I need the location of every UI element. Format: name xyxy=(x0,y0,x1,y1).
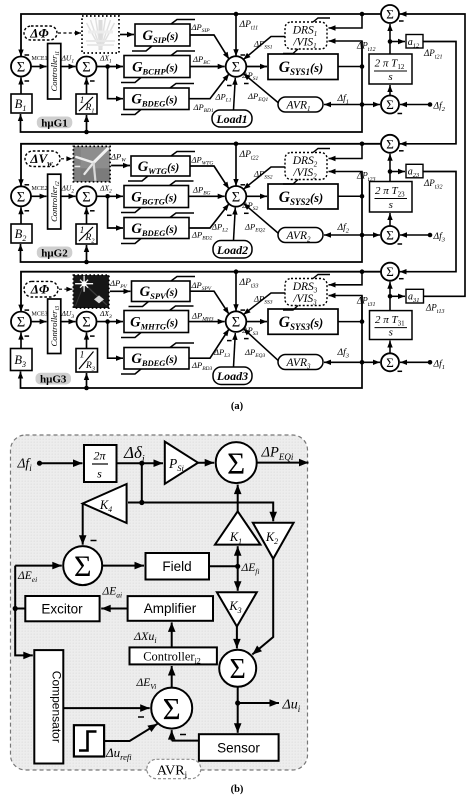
wire G_SPV output to main summer area 3 xyxy=(190,291,229,314)
wire junction to gain a31 xyxy=(390,294,405,299)
svg-text:s: s xyxy=(388,71,392,83)
wire dX3 down to third block area 3 xyxy=(108,322,123,361)
wire G_BDEG output to main summer area 1 xyxy=(189,74,229,99)
svg-text:MCE2: MCE2 xyxy=(32,186,48,192)
wire ACE to controller area 1 with MCE label xyxy=(31,64,47,69)
wire main summer output dP_S1 to G_SYS1 xyxy=(246,64,267,69)
wire AVR1 output dP_EQ1 into main summer xyxy=(243,74,278,103)
wire df2 into AVR2 xyxy=(324,232,362,237)
wire AVR2 output dP_EQ2 into main summer xyxy=(243,203,278,233)
svg-text:(a): (a) xyxy=(231,401,244,412)
wire Sensor output into summer b3 xyxy=(168,730,199,741)
svg-text:Amplifier: Amplifier xyxy=(144,601,197,616)
wire df1 into DRS1 input 2 xyxy=(329,38,363,66)
svg-text:ΔΦ: ΔΦ xyxy=(30,282,50,297)
block G_BDEG(s) area 2 xyxy=(121,213,194,244)
wire K2 output down into summer b2 xyxy=(252,559,273,655)
wire G_BGTG output to main summer area 2 xyxy=(189,194,225,199)
block B2 frequency bias area 2 xyxy=(11,224,32,243)
wire 1/R3 output into governor summer xyxy=(84,333,89,349)
gain K4 triangle pointing left xyxy=(83,484,127,523)
summing junction governor area 1 xyxy=(77,57,97,82)
node B3 frequency bias input ellipse &#916;&#934; xyxy=(24,281,58,297)
block G_SYS3(s) power system area 3 xyxy=(268,309,338,334)
svg-text:Load3: Load3 xyxy=(216,369,248,383)
component AVR1 automatic voltage regulator area 1 xyxy=(278,97,323,113)
summing junction b1 electrical power xyxy=(216,442,257,483)
wire tie summer up into 2piT12/s block xyxy=(387,85,392,96)
wire dashed disturbance arrow into image area 3 xyxy=(59,287,72,292)
label h-microgrid hmG1 badge xyxy=(37,117,73,130)
summing junction main power balance area 2 xyxy=(226,186,249,215)
wire main summer output dP_S3 to G_SYS3 xyxy=(246,319,267,324)
wire K3 output into summer b2 xyxy=(233,627,241,649)
svg-text:2π: 2π xyxy=(93,449,106,463)
wire DRS3 output dP_SS3 to main summer xyxy=(243,293,285,315)
wire dX1 down to third block area 1 xyxy=(108,67,123,102)
label h-microgrid hmG3 badge xyxy=(36,373,72,386)
wire ddelta_i down to K4 and K2 branch xyxy=(128,463,144,505)
wire 1/R2 output into governor summer xyxy=(84,207,89,224)
svg-text:Σ: Σ xyxy=(230,654,246,685)
summing junction tie-line area 1 xyxy=(381,96,402,114)
wire df other area stub into tie summer area 3 xyxy=(400,360,432,365)
wire df3 into DRS3 input 2 xyxy=(329,293,363,322)
image renewable-source photo area 3 with dotted border xyxy=(73,275,109,308)
wire df3 feedback down and across bottom area 3 xyxy=(18,296,365,391)
wire dE_ei into left summer xyxy=(15,562,62,570)
component AVR3 automatic voltage regulator area 3 xyxy=(278,355,323,371)
svg-text:1: 1 xyxy=(80,226,85,236)
svg-text:Controlleri2: Controlleri2 xyxy=(143,650,201,666)
gain P_Si triangle xyxy=(165,442,198,484)
wire area3 tie feedback top line from top summer to ACE summer xyxy=(18,269,381,311)
wire G_SYS2 output df2 to node xyxy=(338,194,364,199)
svg-text:Σ: Σ xyxy=(232,315,240,331)
block B1 frequency bias area 1 xyxy=(11,94,32,113)
summing junction top tie area 1 xyxy=(381,5,404,23)
wire rotor angle ddelta_i to P_Si gain xyxy=(117,459,164,467)
wire df self into tie summer area 1 xyxy=(362,102,380,107)
wire bottom feedback up into 1/R2 xyxy=(84,245,89,262)
node B2 frequency bias input ellipse &#916;V xyxy=(25,151,60,168)
block G_BGTG(s) area 2 xyxy=(121,181,194,213)
wire bottom feedback up into 1/R1 xyxy=(84,115,89,132)
wire dP_tie into main summer area 2 xyxy=(233,144,245,186)
svg-text:Sensor: Sensor xyxy=(217,741,260,756)
wire Controller output dXu_i to Amplifier xyxy=(168,622,176,647)
gain K1 triangle pointing up xyxy=(215,511,260,546)
wire df other area stub into tie summer area 2 xyxy=(400,232,432,237)
block G_WTG(s) area 2 xyxy=(128,152,195,182)
block gain a12 area 1 xyxy=(406,35,423,50)
wire G_SYS1 output df1 to node xyxy=(338,64,364,69)
summing junction b-left field error xyxy=(63,546,102,585)
svg-text:Excitor: Excitor xyxy=(41,602,83,617)
wire G_BDEG output to main summer area 2 xyxy=(189,204,229,228)
wire summer b3 output dE_Vi to Controller_i2 xyxy=(168,666,176,688)
component AVR2 automatic voltage regulator area 2 xyxy=(278,228,323,244)
wire junction to gain a12 xyxy=(390,39,405,44)
wire B2 output into ACE summer xyxy=(18,207,23,224)
svg-text:Σ: Σ xyxy=(386,228,394,243)
wire G_WTG output to main summer area 2 xyxy=(190,166,229,189)
summing junction ACE area 1 xyxy=(11,55,31,81)
block G_BDEG(s) area 1 xyxy=(121,84,194,115)
svg-text:Σ: Σ xyxy=(82,315,90,331)
wire AVR3 output dP_EQ3 into main summer xyxy=(243,329,278,361)
summing junction top tie area 3 xyxy=(381,263,404,281)
wire B3 output into ACE summer xyxy=(18,333,23,349)
block 2pi/s integrator xyxy=(84,445,117,482)
summing junction governor area 3 xyxy=(77,312,97,337)
wire bottom feedback up into 1/R3 xyxy=(84,373,89,388)
wire df1 feedback down and across bottom area 1 xyxy=(18,41,365,134)
node df_i input xyxy=(17,456,43,473)
block Compensator vertical xyxy=(34,650,63,763)
svg-text:Σ: Σ xyxy=(386,136,394,151)
block B3 frequency bias area 3 xyxy=(11,349,33,371)
svg-text:Σ: Σ xyxy=(82,60,90,76)
gain K2 triangle pointing down xyxy=(253,523,294,559)
wire df self into tie summer area 3 xyxy=(362,360,380,365)
summing junction tie-line area 3 xyxy=(381,353,402,371)
wire junction to gain a23 xyxy=(390,169,405,174)
block Controller_i3 secondary controller area 3 xyxy=(48,299,62,354)
wire a23 output dP_t32 down to area3 top summer xyxy=(400,172,457,275)
wire dX2 output with junction node area 2 xyxy=(97,194,124,199)
block G_MHTG(s) area 3 xyxy=(121,306,194,338)
image renewable-source photo area 2 with dotted border xyxy=(73,146,110,182)
summing junction main power balance area 3 xyxy=(226,311,249,340)
svg-text:Load1: Load1 xyxy=(215,112,247,126)
label h-microgrid hmG2 badge xyxy=(37,247,73,260)
wire a31 output dP_t13 up to area1 top summer xyxy=(400,11,466,296)
block 2piT12/s tie-line transfer area 1 xyxy=(369,54,412,84)
gain K3 triangle pointing down xyxy=(217,592,257,626)
svg-text:s: s xyxy=(389,199,393,211)
wire df self into tie summer area 2 xyxy=(362,232,380,237)
wire area1 tie feedback top line from top summer to ACE summer xyxy=(18,12,381,57)
wire tie-line signal into DRS3 input 1 xyxy=(329,272,363,288)
wire image output to first block area 3 xyxy=(110,289,131,294)
wire dX3 output with junction node area 3 xyxy=(97,319,124,324)
svg-text:Field: Field xyxy=(162,559,191,574)
summing junction ACE area 2 xyxy=(11,185,31,211)
wire B1 output into ACE summer xyxy=(18,78,23,95)
block DRS3/VIS3 demand response dashed box area 3 xyxy=(283,275,330,311)
wire dP_tie into main summer area 1 xyxy=(233,14,245,56)
svg-text:Σ: Σ xyxy=(17,189,25,205)
block G_BCHP(s) area 1 xyxy=(121,51,195,83)
wire a12 output dP_t21 down to area2 top summer xyxy=(400,42,457,147)
svg-text:/VIS1: /VIS1 xyxy=(292,37,316,51)
wire 2piT output up to junction and top summer area 1 xyxy=(387,24,392,54)
block Sensor xyxy=(199,734,279,761)
svg-text:AVR1: AVR1 xyxy=(285,100,310,114)
wire ACE to controller area 3 with MCE label xyxy=(31,319,47,324)
wire dashed disturbance arrow into image area 1 xyxy=(58,31,81,36)
svg-text:Σ: Σ xyxy=(82,189,90,205)
wire G_MHTG output to main summer area 3 xyxy=(189,319,225,324)
summing junction tie-line area 2 xyxy=(381,226,402,244)
wire Field output dE_fi junction to K1 and K3 xyxy=(209,546,242,591)
svg-text:Σ: Σ xyxy=(163,691,181,726)
wire G_SYS3 output df3 to node xyxy=(338,319,364,324)
svg-text:AVRi: AVRi xyxy=(157,764,188,780)
wire G_BDEG output to main summer area 3 xyxy=(189,329,229,358)
wire branch to K2 input xyxy=(142,503,277,522)
svg-text:Σ: Σ xyxy=(17,60,25,76)
wire Compensator output into summer b3 xyxy=(63,704,149,717)
block gain a31 area 3 xyxy=(406,289,424,304)
wire Load1 dP_L1 into main summer xyxy=(232,78,237,110)
wire tie summer up into 2piT23/s block xyxy=(387,213,392,226)
wire controller output dU1 to second summer area 1 xyxy=(61,64,76,69)
wire dX1 output with junction node area 1 xyxy=(97,64,124,69)
svg-text:Σ: Σ xyxy=(386,7,394,22)
summing junction governor area 2 xyxy=(77,186,97,211)
wire ACE to controller area 2 with MCE label xyxy=(31,194,47,199)
svg-text:Σ: Σ xyxy=(74,550,91,583)
svg-text:Σ: Σ xyxy=(232,189,240,205)
block 1/R3 droop area 3 xyxy=(76,349,98,373)
wire K4 output down into left summer xyxy=(79,504,97,545)
block Field xyxy=(146,553,210,580)
block 2piT23/s tie-line transfer area 2 xyxy=(370,182,413,213)
wire Load3 dP_L3 into main summer xyxy=(232,333,237,367)
block G_SYS2(s) power system area 2 xyxy=(268,184,338,209)
summing junction top tie area 2 xyxy=(381,135,404,153)
wire df other area stub into tie summer area 1 xyxy=(400,102,432,107)
svg-text:ΔXui: ΔXui xyxy=(133,629,157,645)
svg-text:MCE1: MCE1 xyxy=(32,56,48,62)
summing junction b2 voltage sum xyxy=(219,650,256,687)
wire DRS1 output dP_SS1 to main summer xyxy=(243,37,285,60)
panel AVR detail rounded dashed container with dotted fill xyxy=(11,435,308,770)
wire dashed disturbance arrow into image area 2 xyxy=(61,156,72,161)
wire df2 feedback down and across bottom area 2 xyxy=(18,172,365,265)
svg-text:hμG2: hμG2 xyxy=(41,247,68,259)
block G_BDEG(s) area 3 xyxy=(121,343,194,374)
svg-text:(b): (b) xyxy=(231,784,244,795)
wire G_SIP output to main summer area 1 xyxy=(190,35,229,59)
wire controller output dU3 to second summer area 3 xyxy=(61,319,76,324)
svg-text:1: 1 xyxy=(80,351,85,361)
wire image output to first block area 2 xyxy=(111,163,130,168)
wire G_BCHP output to main summer area 1 xyxy=(190,64,225,69)
svg-text:Σ: Σ xyxy=(227,445,245,480)
svg-text:Σ: Σ xyxy=(17,315,25,331)
wire DRS2 output dP_SS2 to main summer xyxy=(243,167,285,189)
svg-text:MCE3: MCE3 xyxy=(32,312,48,318)
svg-text:Load2: Load2 xyxy=(216,243,248,257)
block gain a23 area 2 xyxy=(406,164,423,179)
svg-text:hμG1: hμG1 xyxy=(41,117,67,129)
svg-text:s: s xyxy=(97,467,102,481)
component du_refi step reference xyxy=(74,725,104,756)
block 2piT31/s tie-line transfer area 3 xyxy=(370,311,413,340)
block G_SIP(s) area 1 xyxy=(132,20,195,52)
svg-text:Compensator: Compensator xyxy=(50,671,64,743)
svg-text:Σ: Σ xyxy=(386,97,394,112)
block 1/R1 droop area 1 xyxy=(76,94,97,115)
wire 2piT output up to junction and top summer area 3 xyxy=(387,282,392,311)
wire df2 into DRS2 input 2 xyxy=(329,169,363,197)
wire main summer output dP_S2 to G_SYS2 xyxy=(246,194,267,199)
svg-text:hμG3: hμG3 xyxy=(40,374,67,386)
wire summer b2 output to du_i node and Sensor xyxy=(234,687,279,733)
wire left summer to Field block xyxy=(102,562,144,570)
wire image output to first block area 1 xyxy=(120,32,134,37)
wire tie summer up into 2piT31/s block xyxy=(387,341,392,354)
component Load2 area 2 xyxy=(213,241,252,259)
wire P_Si to main summer xyxy=(198,459,214,467)
svg-text:Σ: Σ xyxy=(232,60,240,76)
svg-text:1: 1 xyxy=(80,96,85,106)
svg-text:Σ: Σ xyxy=(386,264,394,279)
block 1/R2 droop area 2 xyxy=(76,224,97,245)
node B1 frequency bias input ellipse &#916;&#934; xyxy=(24,26,57,41)
svg-text:Δδi: Δδi xyxy=(123,443,145,465)
wire tie-line signal into DRS2 input 1 xyxy=(329,144,363,161)
block DRS2/VIS2 demand response dashed box area 2 xyxy=(283,149,330,185)
block Controller_i2 secondary controller area 2 xyxy=(48,174,62,229)
wire Load2 dP_L2 into main summer xyxy=(232,208,237,241)
label AVR_i ellipse badge xyxy=(147,759,201,780)
wire output dP_EQi xyxy=(257,459,309,467)
block Amplifier xyxy=(128,596,213,621)
block Controller_i2 xyxy=(130,647,217,665)
wire df3 into AVR3 xyxy=(324,360,362,365)
block Excitor xyxy=(25,596,99,621)
wire Amplifier output dE_ai to Excitor xyxy=(101,605,127,613)
wire controller output dU2 to second summer area 2 xyxy=(61,194,76,199)
wire dX2 down to third block area 2 xyxy=(108,196,123,230)
wire tie-line signal into DRS1 input 1 xyxy=(329,14,363,31)
wire df_i to 2pi/s block xyxy=(40,459,83,467)
wire area2 tie feedback top line from top summer to ACE summer xyxy=(18,142,381,187)
svg-text:ΔΦ: ΔΦ xyxy=(29,26,49,41)
block G_SYS1(s) power system area 1 xyxy=(268,54,338,80)
block G_SPV(s) area 3 xyxy=(129,277,196,307)
wire K1 output into main summer xyxy=(234,485,242,512)
block Controller_i1 secondary controller area 1 xyxy=(48,44,62,100)
wire dP_tie into main summer area 3 xyxy=(233,272,245,312)
component Load1 area 1 xyxy=(212,110,252,127)
component Load3 area 3 xyxy=(213,367,252,385)
image renewable-source photo area 1 with dotted border xyxy=(82,16,119,53)
wire du_refi into summer b3 xyxy=(104,724,157,741)
block DRS1/VIS1 demand response dashed box area 1 xyxy=(283,18,330,54)
wire Excitor output up to dE_ei and down to Compensator xyxy=(13,566,33,660)
wire 2piT output up to junction and top summer area 2 xyxy=(387,154,392,182)
svg-text:s: s xyxy=(389,327,393,339)
wire 1/R1 output into governor summer xyxy=(84,78,89,95)
summing junction main power balance area 1 xyxy=(226,56,249,85)
svg-text:Σ: Σ xyxy=(386,355,394,370)
wire df1 into AVR1 xyxy=(324,102,362,107)
summing junction ACE area 3 xyxy=(11,310,31,336)
summing junction b3 voltage error xyxy=(151,688,192,729)
